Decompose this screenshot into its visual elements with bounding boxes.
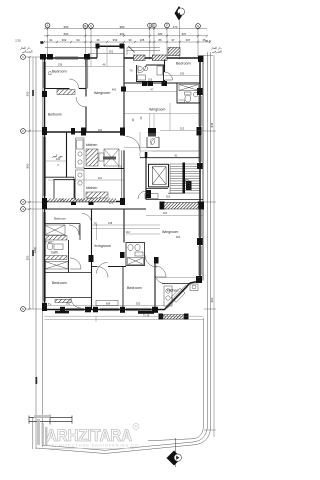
dim vert D/E lines lower <box>149 114 151 129</box>
column P25 <box>71 198 76 205</box>
column P19 <box>93 307 98 313</box>
fixtures wc-bath middle-left <box>45 225 69 269</box>
watermark logo <box>34 415 50 445</box>
door bedroom3 vestibule <box>71 298 81 308</box>
fixtures foyer <box>138 66 163 80</box>
svg-text:Bedroom: Bedroom <box>127 286 142 290</box>
stair arrow circle <box>185 179 189 183</box>
dim mid y225 <box>92 224 161 226</box>
svg-text:45.0: 45.0 <box>205 39 211 43</box>
dim slash ticks left <box>28 56 30 58</box>
right dim line <box>213 55 215 437</box>
wall lightwell bottom y177.2 <box>45 176 75 178</box>
wall spine x124 lower part <box>123 150 125 203</box>
grid bubble F <box>165 23 170 28</box>
stair treads <box>170 163 200 165</box>
column P31 <box>142 81 148 86</box>
wc stairs box <box>147 137 159 147</box>
grid bubble 5 <box>21 307 26 312</box>
door bedroom1 <box>69 79 79 89</box>
window W7 bottom wall bedroom2 <box>126 307 151 309</box>
column P1 <box>40 54 46 60</box>
dim y215.5 <box>146 215 203 217</box>
svg-text:110: 110 <box>126 230 131 234</box>
dim vert x140 <box>139 132 141 158</box>
door kitchen3 <box>155 274 165 284</box>
elevator bottom wall <box>146 188 168 190</box>
svg-text:470: 470 <box>173 25 178 29</box>
grid bubble B <box>83 24 88 29</box>
grid line E <box>153 28 155 60</box>
fixtures wc stairs <box>150 137 159 145</box>
grid bubble D <box>148 23 152 27</box>
svg-text:105: 105 <box>140 38 145 42</box>
window W11 right wall lower <box>198 246 200 275</box>
wall mid double upper y201.5 <box>45 201 125 203</box>
column P20 <box>120 307 125 313</box>
svg-text:97: 97 <box>171 38 175 42</box>
stair landing bottom y199.5 <box>146 199 203 201</box>
fixtures kitchen1 <box>76 138 120 168</box>
hatch strip below stairs <box>164 203 199 210</box>
door bath mid <box>145 255 157 267</box>
fixtures balcony near stairs <box>145 194 158 199</box>
door wc2 <box>70 258 81 269</box>
wall kitchen edge x74 <box>73 177 75 201</box>
wall entry divider y83 <box>124 82 177 84</box>
left dim line b <box>32 57 34 309</box>
svg-text:900: 900 <box>26 163 30 168</box>
dim vert x96.5 <box>96 224 98 241</box>
grid bubble 4 <box>21 207 26 212</box>
bottom boundary inner <box>43 52 208 450</box>
wall wc top y223.5 <box>45 223 81 225</box>
door bedroom3 <box>97 263 108 274</box>
column P33 <box>162 81 168 86</box>
porch hatch left <box>134 55 146 61</box>
fixtures kitchen2 <box>76 170 109 200</box>
svg-text:313: 313 <box>180 127 185 131</box>
window W10 right wall livingroom4 <box>198 210 200 237</box>
left grid line 2 <box>26 130 45 132</box>
column P40 <box>159 314 164 320</box>
porch steps <box>127 48 160 56</box>
bottom diamond symbol <box>167 438 182 467</box>
outer wall left x44.5 <box>44 58 46 310</box>
svg-text:660: 660 <box>64 32 69 36</box>
arabic note top-left <box>19 46 33 54</box>
wall bedroom2 right x155 <box>154 263 156 310</box>
svg-text:340: 340 <box>60 198 65 202</box>
stair rails <box>169 164 171 193</box>
left dim marker dash c <box>35 377 37 384</box>
porch hatch right <box>152 55 167 61</box>
window W4 left wall bedrooms <box>42 212 44 301</box>
terrace tick <box>95 316 97 322</box>
door bedroom2 <box>155 266 166 277</box>
column P12 <box>197 127 202 136</box>
left grid line 5 <box>26 308 45 310</box>
north arrow diamond top <box>175 6 185 21</box>
svg-text:الشمالي: الشمالي <box>22 50 33 54</box>
svg-text:T.W.C: T.W.C <box>45 241 54 245</box>
window W8 right wall bath <box>198 96 200 126</box>
left grid line 4 <box>26 208 45 210</box>
column P10 <box>42 303 47 311</box>
column P38 <box>160 202 165 210</box>
left boundary line inner <box>42 57 44 447</box>
svg-text:F: F <box>166 24 168 28</box>
grid line D <box>149 28 151 60</box>
svg-text:Tr. B: Tr. B <box>143 314 149 318</box>
svg-text:105: 105 <box>148 78 153 82</box>
wall divider x86 <box>85 58 87 97</box>
svg-text:ARHZITARA: ARHZITARA <box>46 427 132 445</box>
column P35 <box>186 181 192 190</box>
dim livroom2 y113.5 <box>124 113 200 115</box>
outer wall right x200 <box>199 58 201 281</box>
wall spine second line x121.8 <box>121 150 123 203</box>
svg-text:350: 350 <box>26 91 30 96</box>
column P3 <box>84 54 90 60</box>
terrace line 1 <box>45 315 204 317</box>
column P16 <box>196 276 202 283</box>
north axis line <box>179 21 181 60</box>
svg-text:Bedroom: Bedroom <box>54 217 67 221</box>
wall bedroom3 top y272.5 <box>45 272 92 274</box>
svg-text:Tv.: Tv. <box>48 302 52 306</box>
terrace hatch strip <box>163 315 184 320</box>
svg-text:360: 360 <box>176 235 181 239</box>
wall spine x124 upper <box>123 44 125 136</box>
wall livroom divider y266.5 <box>92 266 98 268</box>
svg-text:304: 304 <box>120 32 125 36</box>
arabic note top-right <box>203 39 222 56</box>
window W2 left wall bedroom1 <box>42 62 44 88</box>
corridor line y147.4 <box>124 146 160 148</box>
svg-text:236: 236 <box>58 63 63 67</box>
bedroomTR wall x164.5 <box>164 60 166 84</box>
grid line B <box>84 28 86 58</box>
window W3 left wall lightwell <box>42 137 44 196</box>
window W5 bottom wall bedroom3 <box>66 307 84 309</box>
svg-text:138: 138 <box>108 221 113 225</box>
grid bubble C <box>89 24 94 29</box>
svg-text:الشرقي: الشرقي <box>212 50 222 54</box>
door room4 <box>97 267 108 278</box>
column P13 <box>197 163 203 169</box>
wall foyer box <box>137 65 164 82</box>
svg-text:470: 470 <box>109 201 114 205</box>
column P23 <box>81 128 86 136</box>
column P21 <box>152 307 158 313</box>
porch diagonal <box>128 46 134 52</box>
fixtures bathroom TR <box>179 85 199 103</box>
stair section bar <box>183 163 186 194</box>
door bedroom-small <box>82 214 92 224</box>
grid line G <box>197 28 199 59</box>
grid bubble G <box>196 24 201 29</box>
shaft box lightwell2 <box>54 179 75 199</box>
top dimension line row2 <box>44 35 207 37</box>
porch block outside <box>168 48 180 56</box>
column P5 <box>120 44 125 49</box>
dim lightwell y161 <box>45 160 67 162</box>
column P6 <box>198 56 204 63</box>
column P15 <box>197 238 203 245</box>
dim livroom2 y91.5 <box>124 91 177 93</box>
svg-text:350: 350 <box>26 255 30 260</box>
svg-text:302: 302 <box>66 302 71 306</box>
column P2 <box>47 54 53 60</box>
outer wall bottom y309.5 <box>45 309 165 311</box>
svg-text:307: 307 <box>186 38 191 42</box>
door bedroomTR <box>165 72 173 80</box>
column P9 <box>42 198 47 209</box>
top dimension line row1 <box>44 28 207 30</box>
wall kitchen divider y168.5 <box>84 168 124 170</box>
column P26 <box>89 198 94 205</box>
gate symbol on left boundary <box>29 415 72 425</box>
svg-text:E: E <box>153 24 155 28</box>
watermark registered mark <box>133 424 139 430</box>
column P4 <box>96 44 100 49</box>
column P18 <box>85 307 91 313</box>
svg-text:livingroom: livingroom <box>162 230 178 234</box>
left dim marker dash a <box>32 90 34 96</box>
left dim line a <box>29 57 31 309</box>
svg-text:302: 302 <box>136 302 141 306</box>
column P28 <box>89 255 94 262</box>
door hall main <box>126 137 140 151</box>
wall mid double lower y209 <box>45 208 147 210</box>
column P11 <box>197 88 203 95</box>
fixtures kitchen3 <box>164 286 185 306</box>
column P37 <box>145 152 148 158</box>
column P34 <box>121 87 126 92</box>
bottom boundary short inner <box>148 318 204 441</box>
door stairs <box>138 191 146 199</box>
svg-text:kitchen: kitchen <box>167 289 178 293</box>
svg-text:livingroom: livingroom <box>94 91 110 95</box>
Tr dark dash 1 <box>55 311 69 314</box>
duct shaft block <box>148 128 156 133</box>
bedroom1 corner mark <box>49 72 51 75</box>
outer wall right jog <box>190 281 200 283</box>
column P8 <box>42 127 47 135</box>
column P36 <box>146 190 151 198</box>
door wc1 <box>69 225 79 235</box>
column P27 <box>120 198 125 205</box>
grid line A <box>47 28 49 58</box>
column P22 <box>71 128 75 135</box>
outer wall diagonal <box>164 283 190 310</box>
top dimension line row3 <box>44 41 210 43</box>
svg-text:460: 460 <box>112 88 117 92</box>
left grid line 3 <box>26 201 45 203</box>
svg-text:180: 180 <box>158 32 163 36</box>
svg-text:110: 110 <box>98 176 103 180</box>
bay side left <box>96 46 98 58</box>
grid bubble A <box>45 23 50 28</box>
column P41 <box>184 314 189 320</box>
dim y277.5 <box>157 277 200 279</box>
svg-text:302: 302 <box>109 49 114 53</box>
column P29 <box>120 252 125 258</box>
grid line F <box>166 28 168 60</box>
wall wc x68.5 <box>68 240 70 273</box>
column P17 <box>60 307 65 313</box>
svg-text:86: 86 <box>158 38 162 42</box>
window W1 top wall <box>55 56 78 58</box>
dim y234 <box>126 233 160 235</box>
column P30 <box>154 257 159 264</box>
dim vert x170 <box>169 103 171 131</box>
svg-text:302: 302 <box>98 128 103 132</box>
wall big divider y132 <box>45 131 125 133</box>
svg-text:30: 30 <box>128 38 132 42</box>
svg-text:Bedroom: Bedroom <box>52 281 67 285</box>
grid bubble 3 <box>21 200 26 205</box>
bay front wall y46.2 <box>97 45 124 47</box>
grid line C <box>90 28 92 58</box>
svg-text:livingroom: livingroom <box>95 244 111 248</box>
window W6 bottom wall room4 <box>100 307 119 309</box>
window W12 diagonal wall <box>166 285 187 307</box>
svg-text:340: 340 <box>56 157 61 161</box>
Tr dark dash 2 <box>138 311 154 314</box>
column P32 <box>148 81 153 86</box>
dim y151 <box>140 150 152 152</box>
svg-text:R: R <box>135 424 138 429</box>
wall divider x86 second line <box>87 58 89 89</box>
door foyer <box>138 65 146 73</box>
grid bubble 1 <box>21 55 26 60</box>
dim kitchen y180 <box>48 179 124 181</box>
canopy edge line <box>45 47 97 49</box>
fixtures boiler niche <box>190 284 198 291</box>
svg-text:91: 91 <box>49 38 53 42</box>
left boundary extra <box>32 418 34 449</box>
dim bedroom1 <box>45 66 87 68</box>
dim livingroom1 <box>86 66 124 68</box>
wall right second line x203 <box>202 58 204 281</box>
grid bubble E <box>152 23 156 27</box>
mid-wall hatch fill <box>48 198 116 201</box>
svg-text:kitchen: kitchen <box>86 143 97 147</box>
dim y130.5 <box>160 130 204 132</box>
svg-text:980: 980 <box>120 25 125 29</box>
column P24 <box>120 128 125 136</box>
dim bottom y305.5 <box>45 305 165 307</box>
right dim tick r1 <box>204 130 216 132</box>
column P7 <box>42 91 47 97</box>
wall bathTR top <box>177 82 200 84</box>
dim slash ticks top <box>47 27 49 29</box>
svg-text:46: 46 <box>96 38 100 42</box>
stair core left x146 <box>145 158 147 200</box>
wall bathTR box <box>177 83 200 103</box>
svg-text:608: 608 <box>106 302 111 306</box>
left dim marker dash b <box>32 250 34 256</box>
svg-text:kitchen: kitchen <box>86 186 97 190</box>
wall kitchen3 top <box>162 283 189 285</box>
stair core top y157.7 <box>140 157 200 159</box>
dim vert x107 <box>106 46 108 66</box>
wall divider2 x91.5 <box>91 209 93 310</box>
svg-text:307: 307 <box>182 32 187 36</box>
corridor line y151 <box>152 150 200 152</box>
svg-text:Bedroom: Bedroom <box>52 70 67 74</box>
left boundary line outer <box>35 57 37 449</box>
window W9 right wall livingroom2 <box>198 136 200 162</box>
dim mid y228.5 <box>92 228 161 230</box>
bottom boundary outer <box>36 52 211 454</box>
column P14 <box>198 202 204 210</box>
wall wc x80 short <box>79 224 81 241</box>
svg-text:170: 170 <box>95 221 98 226</box>
svg-text:2.20: 2.20 <box>15 39 21 43</box>
svg-text:B: B <box>84 24 86 28</box>
left grid line 1 <box>26 56 45 58</box>
svg-text:302: 302 <box>163 211 168 215</box>
elevator shaft <box>149 164 169 187</box>
svg-text:1460: 1460 <box>33 246 37 253</box>
door room2 <box>76 97 86 107</box>
svg-text:302: 302 <box>62 38 67 42</box>
wardrobe room2 <box>57 90 75 95</box>
right dim tick r3 <box>204 308 216 310</box>
fixtures bath middle <box>126 243 145 266</box>
svg-text:230: 230 <box>180 72 185 76</box>
stair under-tread wall y193.2 <box>168 192 183 194</box>
svg-text:bath: bath <box>52 251 58 255</box>
bay window sill line <box>88 52 124 54</box>
svg-text:Bedroom: Bedroom <box>176 62 191 66</box>
grid bubble 2 <box>21 129 26 134</box>
svg-text:livingroom: livingroom <box>149 108 165 112</box>
wall bath-left x124 mid <box>123 209 125 243</box>
right dim tick r2 <box>204 201 216 203</box>
column P39 <box>199 202 205 210</box>
right dim tick r4 <box>204 429 216 431</box>
terrace line 2 <box>45 318 204 320</box>
outer wall top main y58 <box>45 57 98 59</box>
wall bedroom3 inner y297.5 <box>45 297 92 299</box>
svg-text:105: 105 <box>118 165 123 169</box>
svg-text:302: 302 <box>166 195 171 199</box>
svg-text:A: A <box>46 24 48 28</box>
wall lightwell x66.5 <box>66 132 68 177</box>
svg-text:660: 660 <box>64 25 69 29</box>
wall bedroom2 left x123 <box>122 267 124 310</box>
fixtures bottomwall cabinet <box>55 299 118 305</box>
svg-text:Bedroom: Bedroom <box>48 113 62 117</box>
svg-text:354: 354 <box>113 38 118 42</box>
svg-text:ARCHITECTURE ENGINEERING CO: ARCHITECTURE ENGINEERING CO <box>48 444 139 448</box>
svg-text:94: 94 <box>76 38 80 42</box>
dim vert B/C lines <box>84 58 86 67</box>
wall bedroom1 bottom y88.5 <box>45 88 70 90</box>
corner dim dash <box>40 41 43 44</box>
dim bathTR y75.5 <box>165 75 201 77</box>
